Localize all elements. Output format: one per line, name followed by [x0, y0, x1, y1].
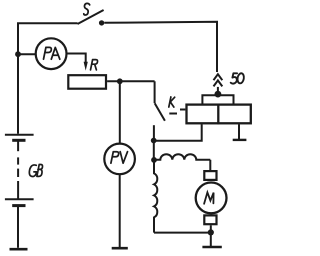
- ground (block earth bar): [233, 139, 247, 141]
- resistor R (rheostat body): [68, 75, 106, 89]
- switch K blade: [155, 103, 165, 120]
- ground (PV earth bar): [112, 247, 128, 250]
- slider bracket on block: [202, 95, 233, 103]
- slider arrow onto R: [84, 62, 88, 71]
- wire battery to earth: [17, 206, 19, 248]
- ground (battery earth bar): [10, 248, 28, 251]
- node C junction dot: [215, 91, 222, 98]
- wire: left vertical + top horizontal to switch S: [18, 23, 78, 134]
- wire motor to node F: [210, 225, 212, 232]
- label M: [204, 192, 214, 203]
- node D junction dot: [151, 138, 157, 144]
- label GB: [29, 165, 42, 177]
- block right leg: [238, 124, 240, 139]
- motor brush top: [204, 171, 216, 180]
- inductor L2 vertical (field winding): [154, 160, 157, 233]
- wire stub above cell2: [17, 181, 19, 199]
- wire chevron to node C: [217, 87, 219, 94]
- wire node B down to voltmeter PV: [119, 81, 121, 144]
- motor brush bottom: [204, 215, 216, 224]
- label K: [169, 97, 175, 107]
- wire stub below cell1: [17, 140, 19, 151]
- wire to ammeter PA: [18, 53, 36, 55]
- node A junction dot: [15, 51, 21, 57]
- wire node B to switch K top: [154, 81, 156, 103]
- switch S blade: [78, 10, 104, 24]
- battery GB cell1 short plate: [12, 139, 25, 142]
- wire node D down to node E: [153, 141, 155, 160]
- label PA: [44, 47, 60, 59]
- wire top right: [104, 22, 217, 72]
- inductor L1 horizontal: [154, 154, 210, 160]
- wire to motor top: [209, 160, 211, 170]
- label S: [84, 3, 90, 15]
- label PV: [111, 152, 128, 164]
- motor M armature: [196, 183, 227, 214]
- bottom wire: [154, 232, 211, 234]
- node E junction dot: [151, 157, 157, 163]
- label 50: [231, 73, 245, 84]
- block U1 body: [187, 105, 251, 124]
- battery GB cell2 short plate: [12, 204, 25, 207]
- wire node D to block bottom leg: [154, 124, 202, 140]
- wire PV down to earth: [119, 174, 121, 248]
- battery GB cell1 long plate: [5, 134, 34, 136]
- ground (motor earth bar): [202, 246, 221, 249]
- dashed cells dash: [17, 157, 19, 164]
- connector chevron lower: [214, 80, 223, 86]
- node B junction dot: [117, 78, 123, 84]
- switch S contact dot: [99, 20, 104, 25]
- linkage dash to K: [169, 113, 177, 115]
- switch K bottom stub: [153, 125, 155, 140]
- battery GB cell2 long plate: [5, 198, 34, 200]
- label R: [91, 60, 98, 70]
- wire from R to node B and to switch K: [107, 80, 155, 82]
- node F junction dot: [208, 229, 214, 235]
- block divider: [217, 104, 219, 125]
- voltmeter PV: [104, 144, 135, 175]
- wire motor to earth: [210, 232, 212, 246]
- connector chevron upper: [214, 74, 223, 80]
- dashed cells dash: [17, 169, 19, 177]
- wire from PA to rheostat slider: [66, 54, 86, 64]
- block left stub: [180, 109, 185, 111]
- ammeter PA: [36, 38, 67, 69]
